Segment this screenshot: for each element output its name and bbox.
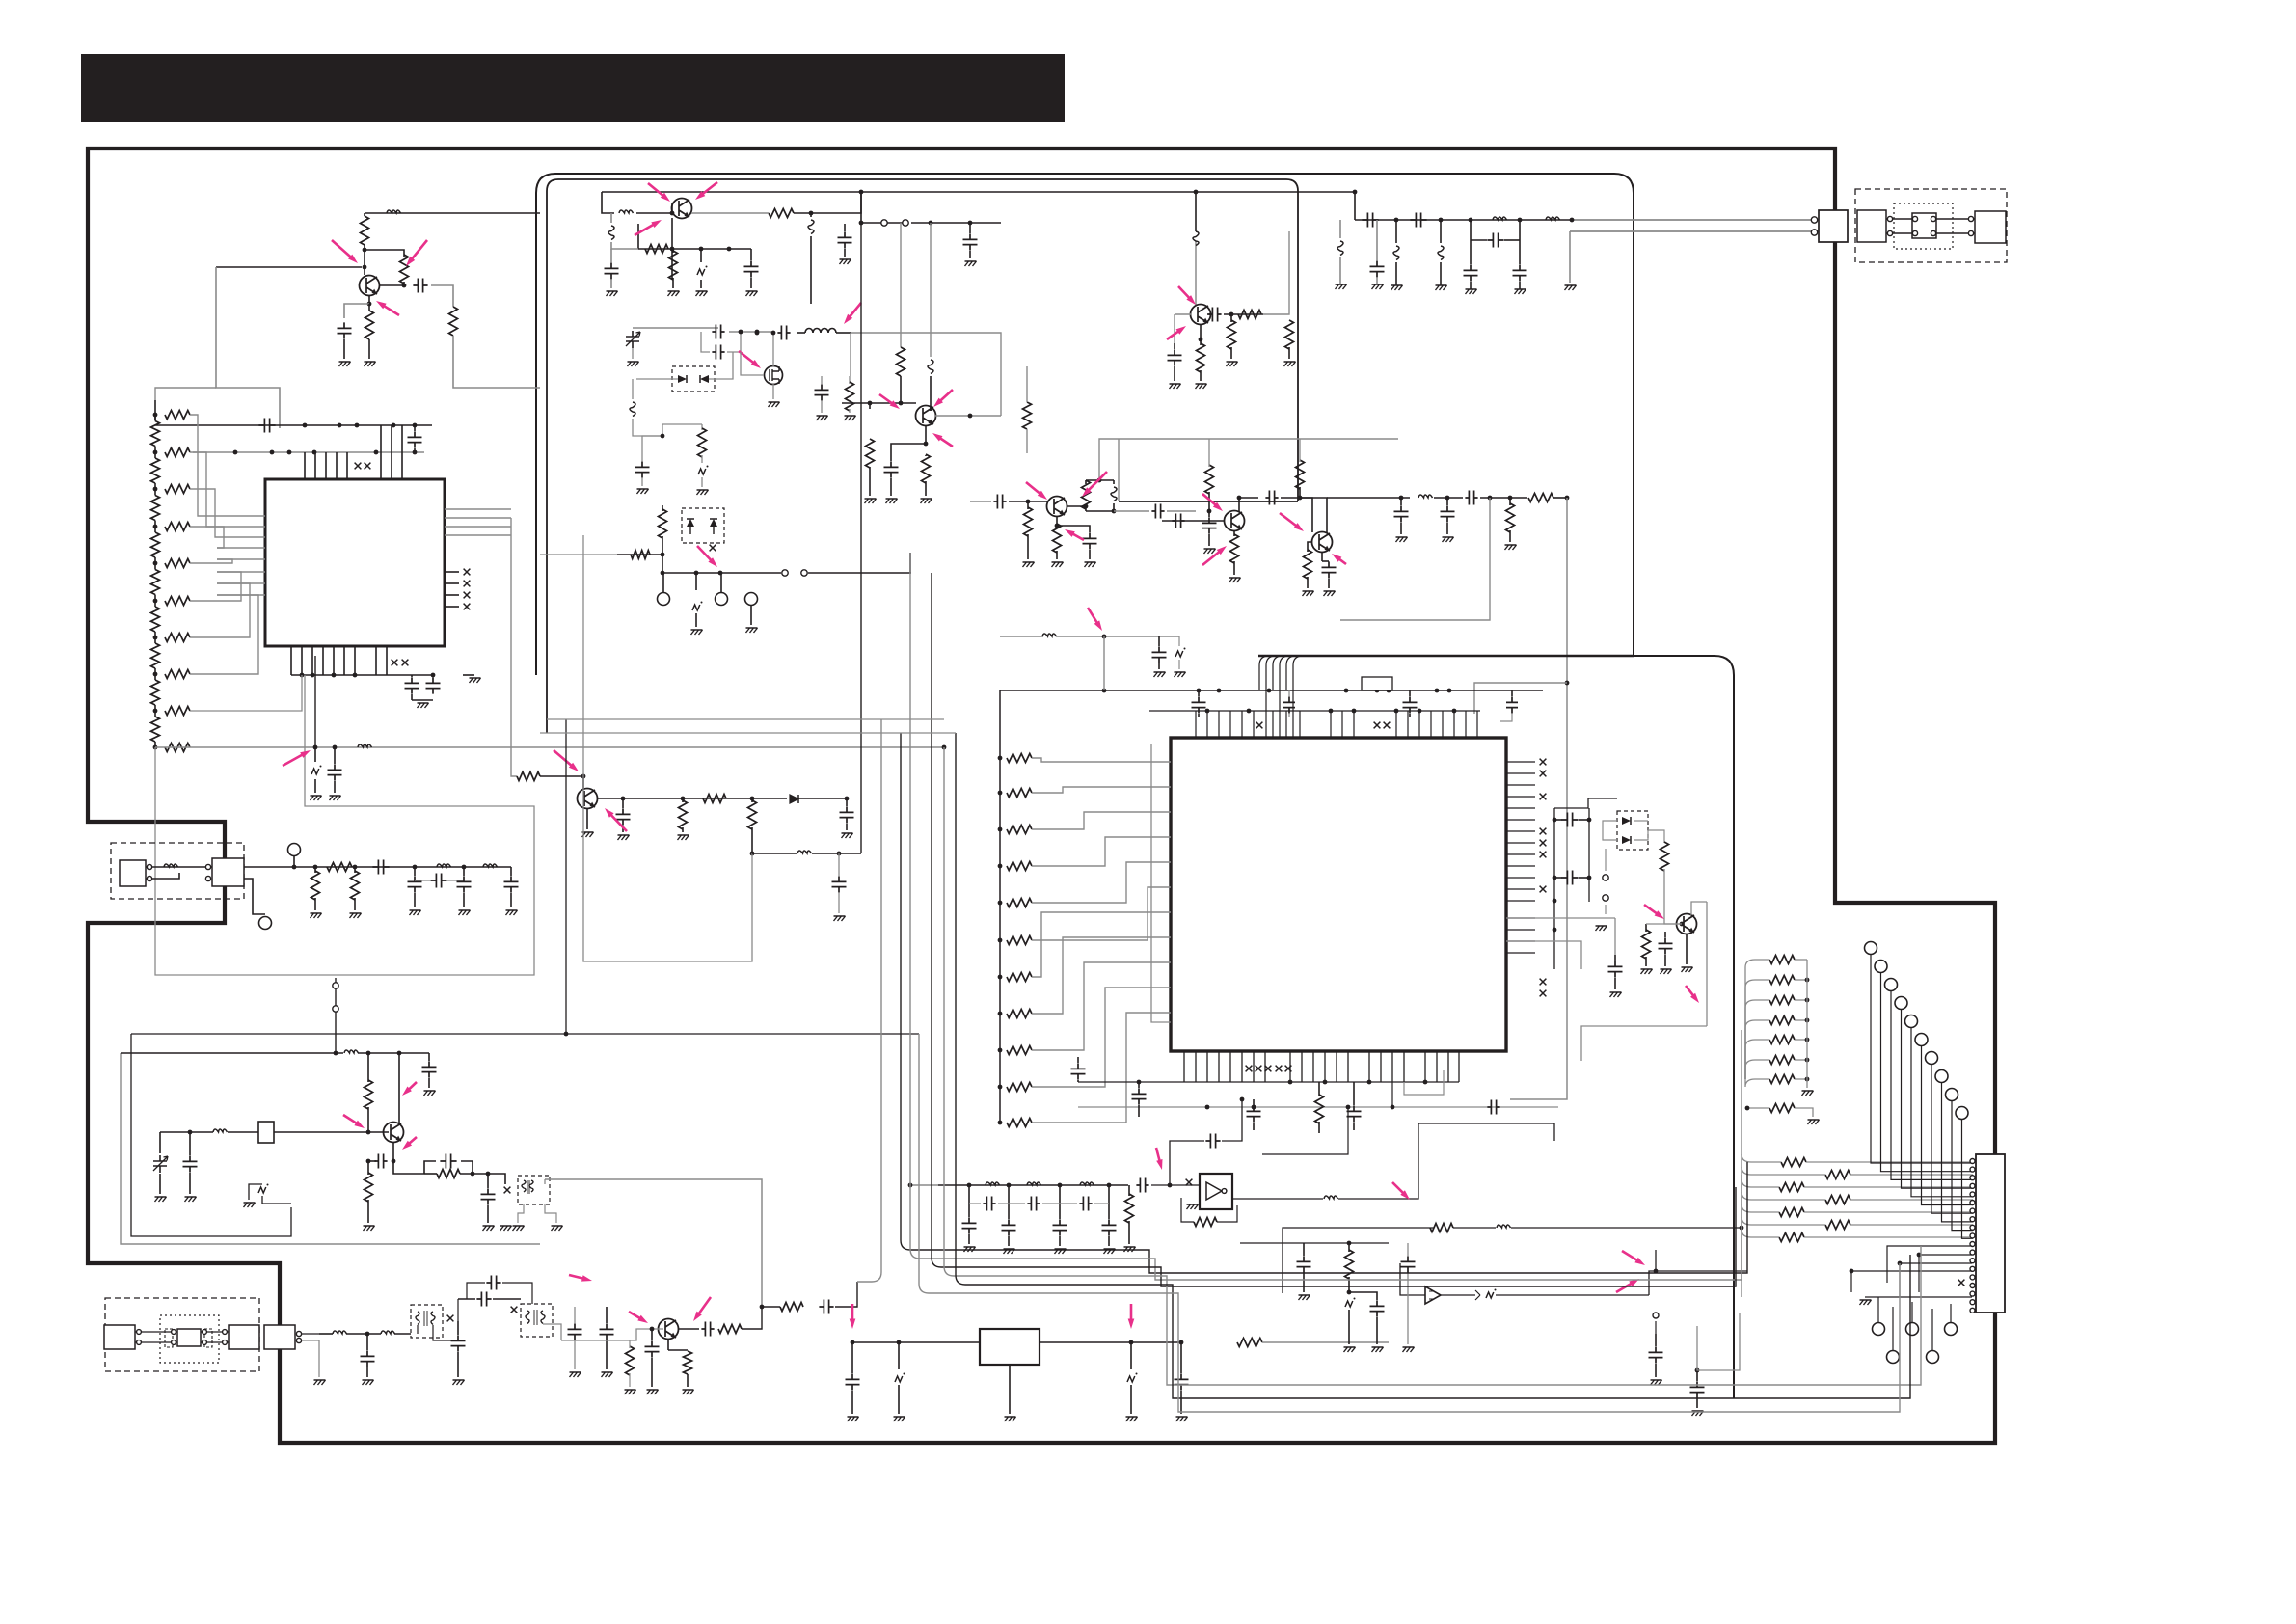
ground (1641, 969, 1653, 974)
wire T1 out (433, 1325, 458, 1340)
dashed power unit (111, 843, 244, 899)
electrolytic C91 (1345, 1301, 1353, 1307)
inductor L54 (1339, 220, 1341, 238)
wire IC2 L2 (1391, 1082, 1393, 1107)
capacitor C11 (414, 867, 416, 876)
ground (339, 362, 351, 366)
no-connect (1186, 1179, 1193, 1186)
ground (418, 703, 429, 708)
capacitor C81 (1008, 1185, 1010, 1219)
wire mid line (1283, 1228, 1434, 1293)
wire Q1 base route (216, 267, 280, 428)
wire ladder top (155, 388, 216, 400)
ground (840, 259, 851, 264)
pin (147, 864, 151, 869)
ground (964, 1247, 976, 1252)
connector jack (229, 1325, 259, 1349)
wire IC1 bot bus (291, 674, 432, 676)
ground (668, 291, 680, 296)
wire Q4 out (1086, 510, 1114, 512)
ground (1284, 362, 1296, 366)
wire osc coll (398, 1053, 400, 1123)
wire J2 bot1 (1887, 1246, 1972, 1283)
inductor L21 (1080, 1182, 1094, 1185)
resistor R46 (1128, 1185, 1130, 1196)
arrow (629, 1312, 640, 1318)
capacitor C38 (1400, 498, 1402, 505)
capacitor C86 (1079, 1197, 1092, 1211)
capacitor C19 (712, 325, 724, 339)
diode D6 (1622, 836, 1631, 844)
node (755, 331, 760, 336)
wire audio links (135, 1331, 177, 1333)
capacitor C75 (819, 1300, 833, 1314)
electrolytic C23 (698, 469, 706, 474)
wire Q1 base (216, 266, 362, 268)
node (1811, 217, 1817, 223)
inductor L5 (483, 864, 498, 867)
arrow (697, 546, 712, 561)
trimmer capacitor CV1 (626, 331, 639, 348)
resistor R40 (437, 1170, 460, 1178)
resistor R10 (354, 867, 356, 873)
resistor RL3 (151, 496, 160, 521)
wire T1 wires (411, 1325, 418, 1334)
capacitor C10 (372, 860, 389, 875)
wire ladder spine (154, 400, 156, 420)
wire mid rail (662, 572, 781, 574)
ground (1610, 992, 1622, 997)
capacitor C42 (1288, 690, 1290, 696)
node (313, 745, 318, 750)
ground (845, 416, 856, 420)
inductor L3 (164, 864, 178, 867)
capacitor C55 (1376, 220, 1378, 260)
wire Q5 out (1224, 313, 1263, 315)
testpoint (1945, 1323, 1958, 1336)
wire Q7 chain (1329, 497, 1398, 499)
wire route D (1697, 1313, 1740, 1370)
resistor R47 (1194, 1218, 1217, 1227)
resistor RI4 (1007, 862, 1032, 871)
testpoint (658, 593, 670, 606)
testpoint (288, 844, 301, 856)
wire L8 right (811, 192, 861, 213)
jumper (333, 983, 338, 988)
resistor RH2 (165, 448, 190, 457)
dashed antenna unit (1855, 189, 2007, 262)
op-amp U4 (1425, 1286, 1441, 1304)
wire xtal l (228, 1131, 258, 1133)
resistor R22 (1027, 501, 1029, 509)
ground (1204, 549, 1216, 554)
ground (1124, 1247, 1136, 1252)
IC1 right pins nc (445, 571, 459, 573)
ground (1324, 591, 1336, 596)
wire rx drop (1569, 231, 1571, 283)
ground (1515, 289, 1526, 294)
resistor R38 (367, 1053, 369, 1082)
wire Q11 base route (511, 518, 517, 776)
wire osc to xfmr (488, 1174, 505, 1184)
ground (921, 499, 932, 503)
wire mic out (302, 1333, 319, 1335)
wire loop B (547, 179, 1298, 733)
wire vbus1 (860, 192, 862, 213)
box quartz (1362, 677, 1392, 690)
node (233, 450, 238, 455)
wire IC1 drop2 (155, 675, 534, 975)
jumper (782, 570, 788, 576)
capacitor C37 (1322, 561, 1337, 578)
wire opamp (1441, 1294, 1475, 1296)
capacitor C57 (1138, 1082, 1140, 1088)
capacitor C6 (432, 675, 434, 677)
wire Q7 em (1321, 552, 1323, 561)
ground (746, 291, 758, 296)
wire filter rail (1355, 219, 1572, 221)
ground (1023, 562, 1035, 567)
inductor L22 (1497, 1225, 1511, 1228)
capacitor C52 (1470, 220, 1472, 264)
resistor R21 (1085, 480, 1087, 484)
ground (1565, 285, 1577, 290)
no-connect (1246, 1066, 1253, 1072)
resistor R43 (718, 1325, 742, 1334)
wire IC1 top bus2 (193, 451, 424, 453)
ground (848, 1417, 859, 1421)
diode D5 (1622, 817, 1631, 825)
node (967, 1183, 972, 1188)
capacitor C60 (1664, 932, 1666, 937)
resistor R17 (900, 223, 902, 347)
wire IC1 top bus (155, 424, 432, 426)
node (661, 553, 665, 557)
resistor RH1 (165, 411, 190, 420)
resistor R13 (769, 209, 794, 218)
resistor RH9 (165, 707, 190, 716)
resistor R8 (314, 867, 316, 873)
IC2 top pins (1195, 711, 1197, 738)
wire opamp in (1400, 1263, 1425, 1295)
wire Q9 out (393, 1161, 424, 1174)
resistor RH4 (165, 523, 190, 531)
wire Q2 b (671, 218, 673, 280)
inductor L11 (930, 223, 932, 357)
ground (1596, 926, 1607, 931)
capacitor C54 (1471, 239, 1487, 241)
wire IC2 bot bus (1078, 1081, 1459, 1083)
wire fet g (741, 352, 764, 375)
transistor Q10 (659, 1319, 679, 1340)
wire Q2 fb (637, 224, 639, 249)
arrow (569, 1275, 583, 1279)
ground (1229, 578, 1241, 582)
arrow (1644, 905, 1658, 914)
capacitor C92 (1370, 1300, 1385, 1316)
wire mic chain (319, 1333, 333, 1335)
ground (311, 796, 322, 800)
antenna element (1975, 211, 2006, 243)
ground (1005, 1417, 1016, 1421)
trimmer capacitor CV2 (159, 1132, 161, 1153)
resistor R33 (1528, 494, 1553, 502)
wire Q5 base (1195, 324, 1197, 511)
node (1394, 218, 1399, 223)
inductor L53 (1440, 220, 1442, 243)
ground (865, 499, 877, 503)
no-connect (355, 463, 362, 470)
capacitor C40 (1465, 491, 1477, 505)
ground (697, 490, 709, 495)
no-connect (447, 1315, 454, 1322)
electrolytic C66 (258, 1187, 266, 1193)
capacitor C70 (486, 1276, 500, 1290)
wire vco loop (662, 424, 702, 436)
wire ant link1 (1886, 218, 1912, 220)
capacitor C58 (1253, 1099, 1255, 1105)
wire Q11 fb (583, 776, 752, 961)
wire vco top (633, 327, 718, 329)
capacitor C35 (1172, 514, 1184, 528)
ground (1466, 289, 1477, 294)
xfmr T2 coil (526, 1311, 545, 1324)
node (942, 745, 947, 750)
resistor R5 (517, 772, 540, 781)
wire reg feed (777, 1302, 852, 1342)
wire mid drop (695, 573, 697, 590)
ground (602, 1372, 613, 1377)
relay (1912, 213, 1936, 238)
IC IC2 (1171, 738, 1506, 1051)
resistor RL6 (151, 607, 160, 632)
dashed varactor box2 (682, 508, 724, 543)
wire Q1 em (368, 295, 370, 304)
resistor R20 (1023, 402, 1032, 429)
arrow (1202, 552, 1220, 565)
capacitor C65 (487, 1174, 489, 1188)
wire opamp out (1496, 1294, 1649, 1296)
wire Q11 out (597, 798, 752, 799)
ground (1403, 1347, 1415, 1352)
wire to bus (835, 1282, 857, 1307)
wire Q6 in (1162, 520, 1225, 522)
resistor R16 (662, 505, 663, 511)
wire Q8 em (1686, 934, 1688, 964)
arrow (1686, 986, 1694, 996)
wire route C (1655, 1321, 1657, 1334)
arrow (1392, 1182, 1404, 1194)
wire xfmr gnds (518, 1204, 524, 1223)
resistor R44 (780, 1303, 803, 1312)
arrow (1130, 1304, 1133, 1320)
wire d box wires (1603, 821, 1617, 840)
ground (1344, 1347, 1356, 1352)
wire Q10 rail (526, 1282, 559, 1284)
node (1654, 1269, 1659, 1274)
inductor L14 (1418, 495, 1433, 498)
connector DC plug (120, 860, 146, 886)
node (1439, 218, 1444, 223)
capacitor C90 (1303, 1243, 1305, 1256)
wire varactor (636, 378, 678, 380)
wire Q5 out2 (1263, 231, 1289, 314)
ground (513, 1226, 525, 1231)
capacitor C9b (846, 798, 848, 806)
resistor bank RB2 (1781, 1158, 1806, 1167)
arrow (1178, 286, 1190, 299)
capacitor C47 (1551, 819, 1556, 821)
ground (1085, 562, 1096, 567)
ground (1651, 1380, 1662, 1385)
wire T1 up (457, 1299, 459, 1321)
wire ladder to IC1 (190, 415, 217, 516)
capacitor C22 (821, 376, 823, 384)
resistor R48 (1348, 1243, 1350, 1252)
ground (894, 1417, 905, 1421)
wire hbus mid2 (547, 718, 944, 720)
inductor L52 (1395, 220, 1397, 243)
resistor R12 (672, 249, 674, 253)
capacitor C68 (457, 1321, 459, 1335)
wire IC2 right bus (1553, 808, 1555, 969)
resistor R36 (1645, 924, 1647, 932)
arrow (1088, 472, 1107, 491)
capacitor C61 (428, 1053, 430, 1061)
ground (1372, 284, 1384, 289)
IC1 left pins (217, 515, 265, 517)
ground (1176, 1417, 1188, 1421)
wire Q2 b2 (672, 248, 751, 250)
arrow (1338, 558, 1346, 564)
wire dc out (244, 866, 511, 868)
transistor Q8 (1677, 914, 1697, 934)
node (661, 571, 665, 576)
no-connect (1540, 759, 1547, 766)
wire Q4 in (970, 501, 991, 502)
ground (1436, 285, 1447, 290)
node (1570, 218, 1575, 223)
resistor R42 (684, 1351, 692, 1374)
ground (424, 1091, 436, 1096)
transistor Q7 (1312, 532, 1333, 553)
board outline (88, 149, 1995, 1443)
resistor R30 (1299, 439, 1301, 451)
node (486, 1172, 491, 1177)
ground (1104, 1249, 1116, 1254)
dashed xfmr T3 (518, 1176, 550, 1204)
wire Q11 out2 (752, 853, 797, 854)
resistor RI6 (1007, 936, 1032, 945)
resistor RI3 (1007, 826, 1032, 834)
ground (1692, 1411, 1704, 1416)
ground (696, 291, 708, 296)
node (413, 865, 418, 870)
ground (244, 1203, 256, 1207)
ground (1299, 1295, 1310, 1300)
wire Q7 out (1299, 497, 1301, 499)
wire inv gnd (1194, 1190, 1200, 1192)
resistor RI9 (1007, 1046, 1032, 1055)
resistor R9 (327, 863, 352, 872)
wire chain down (1340, 498, 1490, 620)
capacitor C51 (1410, 213, 1426, 228)
node (367, 302, 372, 307)
ground (1505, 545, 1517, 550)
IC1 right pins a (445, 508, 511, 510)
node (670, 247, 675, 252)
capacitor C24 (641, 453, 643, 461)
electrolytic C78 (1130, 1342, 1132, 1369)
wire vbus audio (857, 719, 881, 1282)
wire mid rail end (909, 553, 911, 573)
capacitor C53 (1519, 220, 1521, 264)
inductor L12 (1086, 479, 1114, 481)
inductor L18 (381, 1331, 395, 1334)
ground (746, 628, 758, 633)
varactor D1 (678, 375, 687, 383)
ground (453, 1380, 465, 1385)
testpoint (716, 593, 728, 606)
transistor Q5 (1191, 305, 1211, 325)
varactor D3 (687, 519, 694, 527)
ground (311, 913, 322, 918)
capacitor C20 (712, 345, 724, 360)
wire T2 out (543, 1324, 561, 1340)
dashed xfmr T1 (411, 1305, 443, 1338)
resistor RL1 (151, 421, 160, 447)
resistor R7 (703, 795, 726, 803)
wire Q4 coll (1067, 505, 1086, 507)
wire IC1 supply (155, 746, 944, 748)
resistor R32 (1509, 498, 1511, 505)
capacitor C36 (1265, 491, 1278, 505)
ground (350, 913, 362, 918)
wire osc frame (121, 1053, 540, 1244)
resistor R37 (1769, 1104, 1795, 1113)
capacitor C87 (1136, 1178, 1148, 1193)
resistor RH7 (165, 634, 190, 642)
wire J2 bot2 (1919, 1255, 1972, 1292)
resistor RH3 (165, 485, 190, 494)
no-connect (1958, 1280, 1965, 1286)
resistor R35 (1661, 842, 1669, 871)
ground (1860, 1300, 1872, 1305)
ground (1391, 285, 1403, 290)
resistor RI2 (1007, 789, 1032, 798)
capacitor C84 (983, 1197, 995, 1211)
resistor R14 (849, 376, 851, 384)
wire Q10 out2 (742, 1307, 780, 1329)
ground (817, 416, 828, 420)
wire IC2 top bus (1000, 690, 1543, 691)
inductor L13 (1195, 192, 1197, 231)
node (313, 865, 318, 870)
inductor L7 (610, 213, 612, 223)
wire ladder row9 (190, 675, 302, 711)
varactor D2 (700, 375, 709, 383)
arrow (1088, 608, 1097, 623)
connector J2 (1976, 1154, 2005, 1313)
ground (1175, 672, 1186, 677)
ground (410, 910, 421, 915)
wire Q5 rail (1195, 241, 1197, 305)
wire Q1 top (365, 212, 540, 214)
xfmr T1 coil (416, 1312, 435, 1325)
wire J2 bot4 (1851, 1271, 1972, 1292)
wire IC2 r2 (1588, 808, 1590, 902)
capacitor C96 (1487, 1100, 1499, 1115)
